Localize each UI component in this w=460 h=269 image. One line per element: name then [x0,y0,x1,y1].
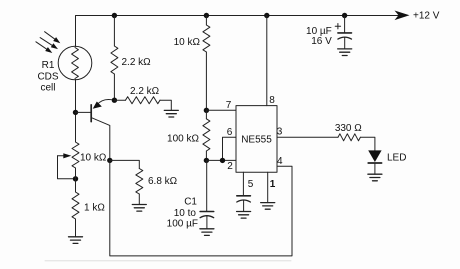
svg-text:R1: R1 [42,60,55,71]
svg-text:LED: LED [387,153,406,164]
svg-text:NE555: NE555 [241,135,272,146]
svg-text:6.8 kΩ: 6.8 kΩ [148,176,178,187]
svg-text:3: 3 [277,127,283,138]
svg-text:6: 6 [227,127,233,138]
svg-text:+12 V: +12 V [413,11,440,22]
svg-text:2.2 kΩ: 2.2 kΩ [130,86,160,97]
svg-text:330 Ω: 330 Ω [335,123,362,134]
svg-text:5: 5 [248,179,254,190]
svg-text:C1: C1 [184,197,197,208]
svg-text:cell: cell [40,83,55,94]
svg-text:10 kΩ: 10 kΩ [80,152,107,163]
svg-text:10 to: 10 to [174,208,197,219]
svg-text:100 µF: 100 µF [167,219,198,230]
svg-text:2.2 kΩ: 2.2 kΩ [122,57,152,68]
svg-text:16 V: 16 V [311,36,332,47]
svg-text:2: 2 [227,161,233,172]
svg-text:7: 7 [226,100,232,111]
svg-text:10 kΩ: 10 kΩ [174,37,201,48]
svg-text:4: 4 [277,156,283,167]
svg-text:1 kΩ: 1 kΩ [84,203,105,214]
svg-text:100 kΩ: 100 kΩ [167,133,199,144]
svg-text:CDS: CDS [37,71,58,82]
svg-text:8: 8 [269,95,275,106]
svg-text:1: 1 [270,179,276,190]
